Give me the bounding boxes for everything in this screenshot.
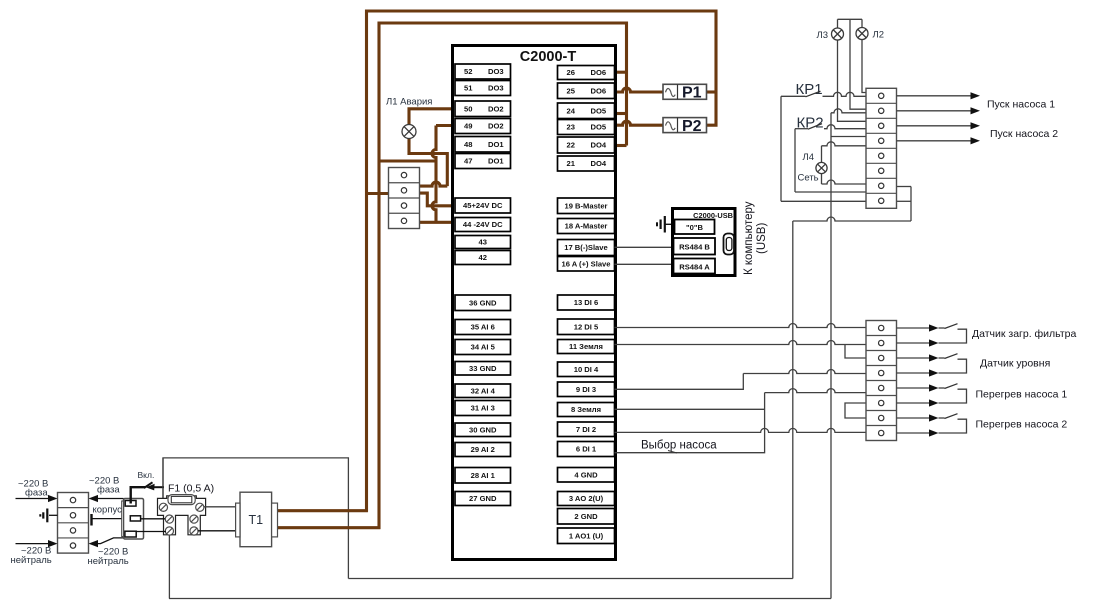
svg-text:16 A (+) Slave: 16 A (+) Slave [561,259,610,268]
terminal 18 A-Master [558,219,615,234]
svg-text:10 DI 4: 10 DI 4 [574,365,599,374]
terminal 17 B(-)Slave [558,240,615,256]
svg-text:RS484 B: RS484 B [679,243,710,252]
terminal 4 GND [558,468,615,483]
svg-text:23: 23 [567,123,575,132]
lamp L4 Set [816,162,827,173]
svg-text:P2: P2 [682,118,702,135]
terminal 47 DO1 [455,154,511,169]
svg-text:Вкл.: Вкл. [138,470,155,480]
connector power plug block [124,499,144,540]
svg-text:DO6: DO6 [591,86,607,95]
terminal 31 AI 3 [455,401,511,416]
relay P1 coil [663,84,707,99]
svg-text:19 B-Master: 19 B-Master [564,201,607,210]
wire loop W2: fuse bottom to lamp-common net [168,535,170,599]
terminal block 8-pos sensors [866,321,897,441]
svg-text:31 AI 3: 31 AI 3 [471,404,495,413]
terminal RS484 B [674,238,716,255]
terminal 12 DI 5 [558,319,615,335]
svg-text:фаза: фаза [97,485,120,496]
wire bracket rows 6-7 of sensor block [845,403,866,418]
svg-text:DO2: DO2 [488,104,504,113]
svg-text:Перегрев насоса 2: Перегрев насоса 2 [976,419,1068,431]
wire lamp feed top bar [838,18,863,20]
terminal 26 DO6 [558,66,615,80]
terminal 8 Земля [558,403,615,417]
svg-text:33 GND: 33 GND [469,364,497,373]
svg-text:18 A-Master: 18 A-Master [565,222,608,231]
terminal block 4-pos 220V input [58,493,89,554]
sensor pump1 overheat contact (Peregrev nasosa 1) [897,387,930,389]
svg-text:4 GND: 4 GND [574,470,598,479]
svg-text:35 AI 6: 35 AI 6 [471,323,495,332]
svg-text:DO2: DO2 [488,122,504,131]
svg-text:28 AI 1: 28 AI 1 [471,471,496,480]
svg-text:DO1: DO1 [488,140,504,149]
ground symbol chassis left [49,514,58,516]
terminal 43 [455,236,511,249]
svg-text:27 GND: 27 GND [469,494,497,503]
svg-text:DO4: DO4 [591,141,607,150]
wire pump start output row 2 [897,110,971,112]
wire lamp common feed down to block row 2 [850,19,866,109]
svg-text:Л2: Л2 [873,30,885,41]
svg-text:22: 22 [567,141,575,150]
chassis bar and wire row2 to switch [90,514,92,526]
lamp L1 bottom wire to input block row 2 right (hops x=436) [409,138,447,186]
svg-text:1 AO1 (U): 1 AO1 (U) [569,531,604,540]
terminal 34 AI 5 [455,340,511,355]
wire terminal 23 DO5 to relay P2 coil (hops DO common) [615,121,664,125]
svg-text:C2000-T: C2000-T [520,49,577,65]
svg-text:30 GND: 30 GND [469,425,497,434]
svg-text:Датчик загр. фильтра: Датчик загр. фильтра [972,328,1076,340]
terminal 36 GND [455,295,511,311]
wire phase to switch [89,495,99,502]
terminal 32 AI 4 [455,384,511,398]
wire fuse bottom-right to T1 primary [198,530,236,532]
svg-text:9 DI 3: 9 DI 3 [576,385,596,394]
svg-text:21: 21 [567,159,576,168]
svg-text:Л3: Л3 [817,30,829,41]
svg-text:Л1 Авария: Л1 Авария [386,97,432,108]
terminal 21 DO4 [558,156,615,171]
terminal block 8-pos pump start [866,88,897,208]
transformer T1 [240,492,272,547]
svg-text:44 -24V DC: 44 -24V DC [463,220,503,229]
op-unit C2000-T controller body [453,46,616,560]
wire loop W1: On switch to relay-common terminals (rows 7/8 of start block) [163,458,348,579]
terminal 7 DI 2 [558,422,615,437]
wire pump start output row 3 [897,125,971,127]
wire start block row 8 right tie [897,200,912,202]
wire brown from T1 bottom secondary y=527.7 [278,526,381,529]
terminal 52 DO3 [455,64,511,79]
sensor level contact (Datchik urovnya) [897,357,930,359]
svg-text:T1: T1 [249,513,264,527]
svg-text:34 AI 5: 34 AI 5 [471,343,496,352]
wire pump start output row 4 [897,140,971,142]
svg-text:нейтраль: нейтраль [11,555,52,566]
svg-text:3 AO 2(U): 3 AO 2(U) [569,494,604,503]
terminal 29 AI 2 [455,443,511,457]
wire lamp L2 bottom to block row 1 [862,39,866,92]
wire 11 Zemlya to sensor row 2 [615,341,867,345]
USB connector [724,234,735,255]
wire lamp L4 top to block row 4 [821,146,823,163]
wire 6 DI 1 pump select to sensor row 5 [615,393,765,453]
lamp L2 [856,28,868,40]
terminal 27 GND [455,492,511,506]
svg-text:Перегрев насоса 1: Перегрев насоса 1 [976,389,1068,401]
wire neutral to switch (jog) [89,540,99,547]
wire brown stub terminal 24 [615,112,627,115]
lamp L1 Avariya circuit: top wire to terminal 50 [409,109,455,125]
relay P2 coil [663,118,707,133]
ground symbol at C2000-USB "0"V [666,223,673,225]
svg-text:47: 47 [464,157,472,166]
terminal 25 DO6 [558,83,615,99]
svg-text:32 AI 4: 32 AI 4 [471,386,496,395]
wire switch bottom contact to fuse bottom-left [136,531,166,533]
terminal 6 DI 1 [558,442,615,457]
terminal block 4-pos power input of C2000-T [389,168,420,229]
svg-text:DO1: DO1 [488,157,504,166]
svg-text:"0"В: "0"В [686,223,703,232]
wire terminal 49 to 44 -24V vertical x=436 [436,124,455,127]
wire 12 DI 5 to sensor row 1 [615,324,867,328]
svg-text:52: 52 [464,67,472,76]
svg-text:DO5: DO5 [591,123,607,132]
wire brown branch to input terminal row 2 left [367,192,390,195]
terminal 48 DO1 [455,137,511,153]
lamp L3 [832,28,844,40]
wire KR1 left down to block row 8 [780,96,782,201]
wire brown stub terminal 26 [615,71,627,74]
svg-text:Пуск насоса 2: Пуск насоса 2 [990,128,1058,140]
terminal 28 AI 1 [455,468,511,484]
wire 220V neutral input arrow [16,543,49,545]
terminal 35 AI 6 [455,320,511,335]
svg-text:42: 42 [479,253,487,262]
svg-text:51: 51 [464,84,473,93]
svg-text:7 DI 2: 7 DI 2 [576,425,596,434]
svg-text:29 AI 2: 29 AI 2 [471,445,495,454]
svg-text:8 Земля: 8 Земля [571,405,601,414]
svg-text:Выбор насоса: Выбор насоса [641,440,717,452]
svg-text:нейтраль: нейтраль [88,556,129,567]
wire lamp L3 bottom to block row 3 [838,40,867,122]
switch Vkl contact [131,487,145,503]
wire input row 2 right jog to terminal 45 +24V [420,193,456,206]
terminal 49 DO2 [455,119,511,134]
terminal 16 A (+) Slave [558,257,615,272]
terminal 33 GND [455,362,511,376]
svg-text:24: 24 [567,106,576,115]
lamp L1 Avariya [402,125,416,139]
svg-text:45+24V DC: 45+24V DC [463,201,503,210]
wire brown branch y=161 toward 49/44 vertical [379,159,436,162]
terminal 50 DO2 [455,101,511,117]
sensor pump2 overheat contact (Peregrev nasosa 2) [897,417,930,419]
wire fuse top-right to T1 primary [204,506,236,508]
wire brown from T1 top secondary y=510.7 [278,509,368,512]
terminal RS484 A [674,259,716,274]
terminal 9 DI 3 [558,382,615,397]
wire 7 DI 2 to sensor row 8 [615,428,867,432]
svg-text:17 B(-)Slave: 17 B(-)Slave [564,243,607,252]
wire terminal 25 DO6 to relay P1 coil (hops DO common) [615,88,664,92]
terminal 2 GND [558,509,615,525]
terminal 13 DI 6 [558,295,615,310]
svg-text:DO4: DO4 [591,159,607,168]
svg-text:Сеть: Сеть [798,173,819,184]
terminal 45+24V DC [455,198,511,213]
terminal 30 GND [455,423,511,437]
terminal 22 DO4 [558,137,615,153]
wire brown inner loop: T1 bottom output up x=379, across y=23, down x=626.5 to DO commons [379,23,627,529]
terminal 19 B-Master [558,198,615,214]
wire brown P1 right stub [707,90,717,93]
svg-text:49: 49 [464,122,472,131]
svg-text:Датчик уровня: Датчик уровня [980,358,1050,370]
svg-text:P1: P1 [682,85,702,102]
wire 8 Zemlya joins pump-select net [615,408,765,410]
svg-text:26: 26 [567,68,575,77]
terminal 11 Земля [558,340,615,354]
wire 220V phase input arrow [16,498,49,500]
svg-text:6 DI 1: 6 DI 1 [576,445,597,454]
terminal 23 DO5 [558,120,615,135]
wire 17 B(-)Slave to RS484 B [615,246,674,248]
svg-text:25: 25 [567,86,576,95]
terminal "0"B [675,220,715,235]
wire Vkl riser to fuse [162,458,164,506]
wire input row 4 right to terminal 44 -24V [420,221,456,224]
wire brown stub terminal 22 [615,144,627,147]
svg-text:12 DI 5: 12 DI 5 [574,322,599,331]
wire KR2 left down to block row 7 [794,129,796,192]
svg-text:11 Земля: 11 Земля [569,342,603,351]
svg-text:корпус: корпус [93,505,123,516]
svg-text:DO6: DO6 [591,68,607,77]
wire lamp L4 bottom to block row 7 [821,174,823,184]
svg-text:DO3: DO3 [488,67,504,76]
svg-text:(USB): (USB) [756,223,768,254]
svg-text:13 DI 6: 13 DI 6 [574,298,598,307]
sensor filter-load contact (Datchik zagr. filtra) [897,327,930,329]
converter U C2000-USB [673,209,736,276]
terminal 42 [455,251,511,265]
wire 16 A(+)Slave to RS484 A [615,263,674,265]
terminal 3 AO 2(U) [558,492,615,506]
svg-text:фаза: фаза [25,488,48,499]
svg-text:DO5: DO5 [591,106,607,115]
svg-text:48: 48 [464,140,472,149]
wire pump start output row 1 [897,95,971,97]
wire 9 DI 3 to sensor row 4 [615,374,744,390]
wire W2 top corner into start block row 2 (hops lamp L3 wire) [831,109,866,113]
terminal 10 DI 4 [558,362,615,377]
wire brown outer loop: T1 top output up x=366.5, across y=11, down x=716 to relays P1/P2 [367,11,717,512]
terminal 24 DO5 [558,103,615,119]
svg-text:К компьютеру: К компьютеру [743,201,755,275]
terminal 44 -24V DC [455,218,511,232]
wire lamp L2 top [861,19,863,28]
fuse F1 holder [158,496,206,535]
svg-text:36 GND: 36 GND [469,298,497,307]
wire switch middle contact to fuse middle-left [141,518,165,520]
wire lamp L3 top [837,19,839,28]
svg-text:Л4: Л4 [803,152,815,163]
wire W2 branch into start block row 4 [831,136,866,138]
svg-text:DO3: DO3 [488,84,504,93]
svg-text:F1 (0,5 A): F1 (0,5 A) [168,483,214,495]
svg-text:2 GND: 2 GND [574,512,598,521]
wire start block row 7 right tie [897,186,912,188]
svg-text:Пуск насоса 1: Пуск насоса 1 [987,99,1055,111]
wire bracket rows 2-3 of sensor block [845,345,866,359]
svg-text:43: 43 [479,238,487,247]
terminal 51 DO3 [455,81,511,96]
svg-text:50: 50 [464,104,472,113]
svg-text:RS484 A: RS484 A [679,263,710,272]
terminal 1 AO1 (U) [558,528,615,544]
